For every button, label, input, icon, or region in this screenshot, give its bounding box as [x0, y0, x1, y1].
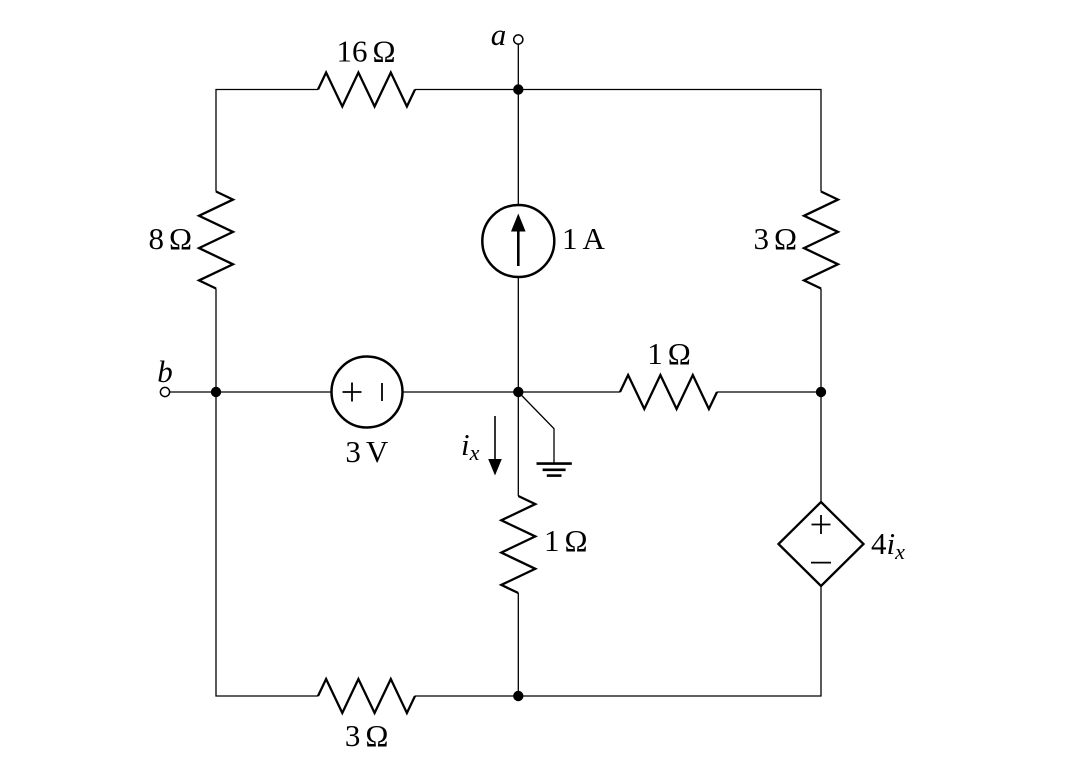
- minus sign inside diamond: [811, 562, 831, 564]
- svg-text:3Ω: 3Ω: [345, 718, 389, 753]
- wire mid-right1: center junction to 1ohm resistor: [518, 391, 620, 393]
- wire right lower: right junction down to dependent source: [820, 392, 822, 502]
- wire right bottom: dependent source to bottom-right corner: [518, 586, 821, 696]
- voltage source 3V (circle): [332, 357, 403, 428]
- wire mid-right2: 1ohm to right junction: [717, 391, 821, 393]
- svg-text:b: b: [157, 354, 173, 389]
- resistor 1ohm (mid horizontal): [620, 375, 717, 409]
- wire left lower: 8ohm down to node b junction: [215, 289, 217, 393]
- wire top-right: node a junction to top-right corner: [518, 90, 821, 192]
- junction bottom node: [513, 691, 523, 701]
- resistor 3ohm (right): [804, 192, 838, 289]
- wire top-mid: 16ohm to node a junction: [415, 89, 518, 91]
- wire mid-left: node b junction to 3V source: [216, 391, 332, 393]
- svg-text:1Ω: 1Ω: [647, 336, 691, 371]
- svg-text:1Ω: 1Ω: [544, 523, 588, 558]
- wire a stub: [517, 44, 519, 89]
- resistor 3ohm (bottom): [318, 679, 415, 713]
- wire center lower: center junction down to 1ohm resistor: [517, 392, 519, 496]
- ground wire (diagonal + vertical): [518, 392, 554, 463]
- plus sign inside 3V: [343, 383, 362, 402]
- svg-text:8Ω: 8Ω: [148, 221, 192, 256]
- wire b stub: [170, 391, 216, 393]
- wire right mid: 3ohm down to right junction: [820, 289, 822, 393]
- resistor 1ohm (center vertical): [501, 496, 535, 593]
- svg-text:16Ω: 16Ω: [336, 34, 395, 69]
- wire bottom-left: bottom-left corner to 3ohm: [216, 392, 318, 696]
- junction node b on left wire: [211, 387, 221, 397]
- current arrow ix: [494, 416, 496, 461]
- resistor 8ohm (left): [199, 192, 233, 289]
- current source arrow (up): [517, 230, 520, 266]
- wire top-left: left corner to 16ohm resistor: [216, 90, 318, 192]
- junction node a on top wire: [513, 84, 523, 94]
- terminal b (open circle): [160, 387, 169, 396]
- dependent source 4ix (diamond): [779, 502, 864, 586]
- wire center upper: node a junction down to current source: [517, 90, 519, 206]
- junction right node: [816, 387, 826, 397]
- ground symbol: [537, 462, 572, 465]
- terminal a (open circle): [514, 35, 523, 44]
- minus sign (rotated bar) inside 3V: [381, 383, 383, 401]
- svg-text:a: a: [491, 17, 507, 52]
- wire center: current source down to center junction: [517, 277, 519, 392]
- junction center node: [513, 387, 523, 397]
- svg-text:3Ω: 3Ω: [753, 221, 797, 256]
- plus sign inside diamond: [812, 515, 831, 534]
- svg-text:3V: 3V: [345, 434, 389, 469]
- current source 1A (circle): [482, 205, 554, 277]
- wire mid-center: 3V source to center junction: [403, 391, 519, 393]
- wire center bottom: 1ohm down to bottom junction: [517, 593, 519, 696]
- wire bottom-mid: 3ohm to bottom junction: [415, 695, 518, 697]
- resistor 16ohm (top): [318, 73, 415, 107]
- svg-text:1A: 1A: [562, 221, 606, 256]
